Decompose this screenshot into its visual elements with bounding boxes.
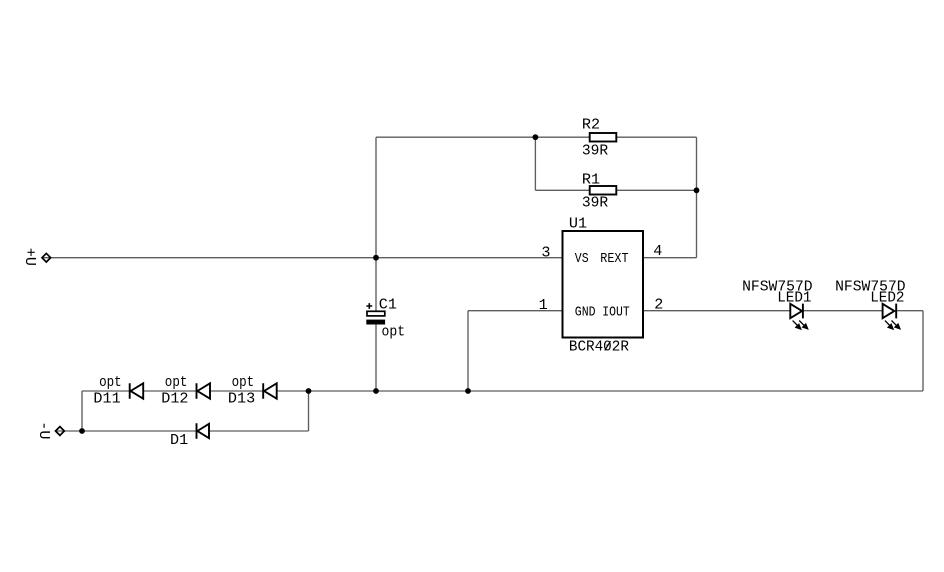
svg-text:LED1: LED1	[777, 289, 811, 307]
svg-text:1: 1	[539, 296, 548, 314]
svg-text:opt: opt	[165, 373, 188, 391]
svg-text:D13: D13	[228, 390, 255, 408]
svg-text:C1: C1	[379, 296, 397, 314]
svg-text:D1: D1	[170, 431, 188, 449]
svg-text:GND: GND	[575, 305, 596, 321]
svg-text:IOUT: IOUT	[602, 305, 629, 321]
svg-text:REXT: REXT	[600, 251, 628, 267]
svg-text:R2: R2	[582, 116, 600, 134]
svg-text:-U: -U	[35, 421, 53, 439]
svg-text:R1: R1	[582, 171, 600, 189]
svg-text:4: 4	[653, 242, 662, 260]
svg-text:D11: D11	[93, 390, 120, 408]
svg-text:39R: 39R	[582, 142, 608, 160]
svg-text:opt: opt	[232, 373, 255, 391]
svg-text:+U: +U	[21, 248, 39, 266]
svg-text:U1: U1	[569, 215, 587, 233]
svg-text:BCR402R: BCR402R	[569, 338, 629, 356]
svg-text:LED2: LED2	[870, 289, 904, 307]
svg-text:VS: VS	[575, 251, 589, 267]
svg-text:opt: opt	[99, 373, 122, 391]
svg-text:2: 2	[654, 296, 663, 314]
svg-text:opt: opt	[382, 322, 406, 340]
svg-text:D12: D12	[161, 390, 188, 408]
svg-text:3: 3	[541, 243, 550, 261]
svg-text:39R: 39R	[582, 194, 608, 212]
